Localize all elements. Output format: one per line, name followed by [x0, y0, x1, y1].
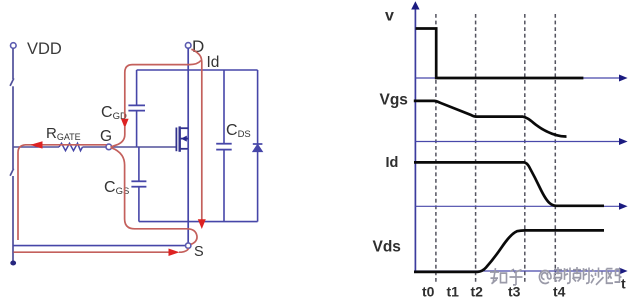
waveform V (drive voltage) [416, 29, 584, 79]
svg-text:RGATE: RGATE [46, 125, 81, 142]
svg-text:t3: t3 [508, 284, 521, 300]
waveform Vds [414, 230, 604, 272]
transistor Q1 (MOSFET) [176, 126, 188, 151]
glyph 飘 1 [554, 267, 571, 283]
wire red left drop [18, 145, 31, 240]
node VDD terminal [11, 43, 17, 49]
arrow into C_GD (down) [121, 119, 129, 129]
axis V horizontal [415, 77, 620, 79]
svg-text:t1: t1 [447, 284, 460, 300]
switch S2 blade (lower) [10, 169, 14, 176]
svg-text:S: S [194, 244, 204, 260]
svg-text:t0: t0 [422, 284, 435, 300]
arrow axis top [411, 1, 419, 9]
arrow Id axis right [619, 203, 628, 210]
axis Vds horizontal [415, 270, 620, 272]
svg-text:Id: Id [386, 155, 399, 171]
capacitor C_DS [216, 70, 232, 222]
wire gate rail mid segment [83, 146, 106, 148]
wire drain vertical [187, 48, 189, 149]
dashed line t3 [524, 14, 526, 282]
wire red bottom outgoing path [14, 251, 170, 253]
svg-text:Vgs: Vgs [380, 92, 408, 109]
capacitor C_GD [128, 70, 145, 147]
wire left rail middle [12, 86, 14, 169]
switch S1 blade (upper) [10, 78, 14, 86]
node S [186, 243, 191, 248]
svg-text:Vds: Vds [373, 239, 401, 256]
wire top rail [137, 69, 258, 71]
glyph 乎 [510, 269, 523, 285]
arrow V axis right [619, 75, 628, 82]
arrow Vds axis right [619, 268, 628, 275]
wire red C_GD path tail into G [111, 126, 125, 147]
dashed line t0 [435, 14, 437, 282]
svg-text:t4: t4 [553, 284, 566, 300]
svg-text:CDS: CDS [226, 122, 251, 140]
node G [106, 144, 112, 150]
wire red Id current path (D down to arrow) [191, 49, 201, 220]
arrow leftward near R_GATE [30, 141, 42, 148]
svg-text:t2: t2 [471, 284, 484, 300]
waveform Id [414, 162, 604, 205]
wire red C_GS return loop (G down, across, around S) [111, 148, 197, 245]
wire bottom mid rail [139, 221, 258, 223]
junction dot bottom-left [10, 261, 16, 266]
svg-text:Id: Id [207, 54, 220, 71]
wire red bottom path curl up to S [179, 249, 189, 253]
glyph 知 [490, 268, 507, 284]
axis Id horizontal [415, 205, 620, 207]
dashed line t2 [475, 14, 477, 282]
capacitor C_GS [131, 147, 146, 222]
svg-text:G: G [100, 128, 112, 145]
arrow Id downward [198, 219, 206, 229]
diode D1 (body diode branch) [253, 70, 263, 222]
waveform Vgs [414, 101, 567, 137]
wire source vertical [187, 149, 189, 243]
wire bottom ground rail [13, 245, 185, 247]
axis Vgs horizontal [415, 141, 620, 143]
watermark 知乎 @飘飘沙鸥 (approximated strokes) [490, 267, 622, 285]
glyph 沙 [591, 268, 604, 285]
wire left rail lower [12, 176, 14, 262]
glyph @ [539, 270, 551, 283]
glyph 飘 2 [573, 267, 590, 283]
resistor R_GATE [59, 143, 83, 150]
dashed line t4 [554, 14, 556, 282]
wire red C_GD path (D to G via C_GD) [125, 61, 201, 119]
svg-text:CGS: CGS [104, 179, 129, 197]
glyph 鸥 [607, 269, 622, 284]
wire gate rail right segment (G to MOSFET gate) [112, 146, 177, 148]
wire gate rail left segment [13, 146, 59, 148]
axis vertical (shared) [414, 8, 416, 272]
wire red gate rail leftward path [31, 144, 107, 146]
svg-text:v: v [385, 8, 394, 25]
svg-text:t: t [621, 276, 626, 292]
wire left rail upper (VDD to switch) [12, 48, 14, 79]
svg-text:VDD: VDD [27, 40, 62, 58]
arrow Vgs axis right [619, 138, 628, 145]
node D [185, 43, 191, 49]
arrow rightward on bottom path [169, 249, 180, 257]
